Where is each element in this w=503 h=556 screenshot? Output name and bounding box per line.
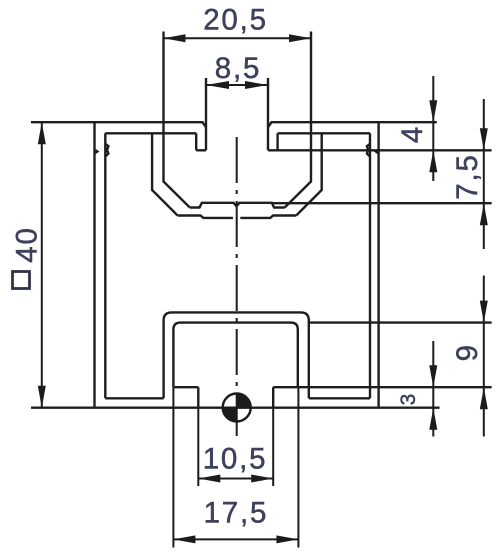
node: arrow 20.5 right [289, 34, 311, 42]
wire: 9 dim line [483, 276, 485, 437]
wire: right slot wall + extension [285, 32, 311, 208]
svg-text:3: 3 [397, 394, 420, 406]
wire: 10.5 ext right [272, 408, 274, 486]
wire: slot floor extension for 7.5 [272, 202, 492, 204]
node: arrow 8.5 left [206, 81, 229, 89]
svg-text:17,5: 17,5 [204, 496, 269, 529]
svg-text:9: 9 [451, 343, 484, 361]
wire: bottom channel outer contour [164, 312, 309, 398]
node: arrow 40 bottom [38, 386, 46, 408]
wire: outer right wall [377, 122, 379, 408]
wire: left hook wall [152, 133, 178, 215]
node: center mark circle [223, 394, 251, 422]
svg-text:10,5: 10,5 [203, 442, 268, 475]
wire: channel roof extension for 9 [309, 321, 492, 323]
node: arrow 17.5 left [173, 535, 195, 543]
node: arrow 17.5 right [276, 535, 298, 543]
node: outer right wall notch [374, 149, 378, 154]
wire: channel opening step right [272, 387, 274, 408]
node: outer left wall notch [96, 149, 100, 154]
node: arrow 8.5 right [245, 81, 268, 89]
node: arrow 9 top [480, 301, 488, 323]
node: inner left wall nub [105, 144, 108, 157]
wire: slot floor underside left [178, 216, 233, 218]
wire: bottom face line [31, 407, 440, 409]
node: arrow 40 top [38, 122, 46, 144]
wire: slot floor cavity side [190, 203, 285, 208]
wire: 17.5 ext right [297, 387, 299, 547]
node: arrow 4 top [429, 100, 437, 122]
wire: right tooth bottom + extension to right [268, 149, 492, 151]
wire: slot floor underside right [240, 216, 296, 218]
wire: 17.5 dim line [173, 538, 298, 540]
wire: 20.5 dim line [164, 37, 312, 39]
node: arrow 20.5 left [164, 34, 186, 42]
svg-text:20,5: 20,5 [203, 3, 268, 36]
node: arrow 4 bottom [429, 150, 437, 172]
node: arrow 9 bottom [480, 387, 488, 409]
svg-text:40: 40 [11, 226, 44, 262]
wire: channel opening step left [197, 387, 199, 408]
node: arrow 3 top [429, 365, 437, 387]
svg-text:4: 4 [396, 125, 429, 143]
wire: chamber floor right [309, 397, 370, 399]
wire: chamber ceiling left [105, 132, 196, 134]
wire: outer left wall [93, 122, 95, 408]
wire: inner right wall [369, 133, 371, 398]
node: square symbol of dim 40 [13, 272, 30, 289]
node: inner right wall nub [367, 144, 370, 157]
node: slot opening right edge [267, 78, 269, 150]
wire: 7.5 dim line [483, 99, 485, 249]
node: arrow 3 bottom [429, 408, 437, 430]
node: centerline [236, 137, 238, 436]
wire: shelf left [173, 386, 198, 388]
wire: 10.5 dim line [198, 478, 273, 480]
wire: top surface with opening gap (incl. dim extensions) [31, 122, 437, 127]
wire: chamber ceiling right [278, 132, 370, 134]
wire: right hook wall [296, 133, 322, 215]
wire: left tooth bottom [196, 149, 206, 151]
wire: 8.5 ext left [205, 78, 207, 92]
wire: bottom channel cavity [173, 323, 297, 388]
wire: 4 dim line [432, 76, 434, 181]
node: arrow 10.5 left [198, 475, 220, 483]
wire: 8.5 dim line [206, 84, 268, 86]
wire: 40 dim line [41, 122, 43, 408]
wire: 17.5 ext left [172, 387, 174, 547]
wire: left tooth inner [195, 133, 197, 150]
node: slot opening left edge [205, 78, 207, 150]
wire: shelf right + extension for 9 and 3 [273, 386, 491, 388]
wire: right tooth inner [276, 133, 278, 150]
node: arrow 7.5 top [480, 128, 488, 150]
svg-text:7,5: 7,5 [451, 153, 484, 199]
wire: chamber floor left [105, 397, 163, 399]
wire: 10.5 ext left [197, 408, 199, 486]
wire: inner left wall [104, 133, 106, 398]
node: arrow 10.5 right [251, 475, 273, 483]
wire: 3 dim line [432, 341, 434, 437]
svg-text:8,5: 8,5 [215, 52, 261, 85]
wire: left slot wall + extension [164, 32, 190, 208]
node: arrow 7.5 bottom [480, 203, 488, 225]
